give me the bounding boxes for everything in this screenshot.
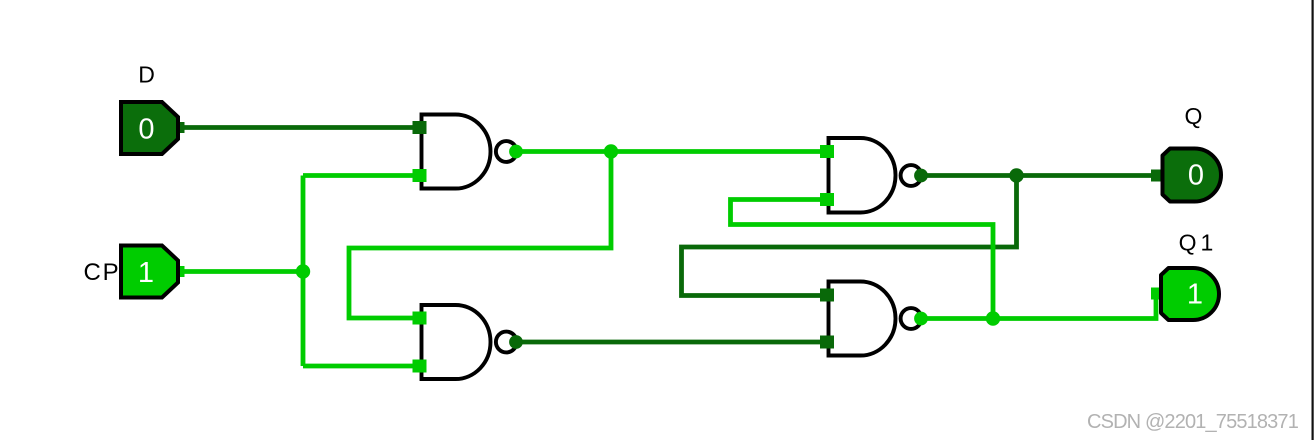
svg-text:CSDN @2201_75518371: CSDN @2201_75518371 (1087, 411, 1299, 433)
svg-text:D: D (138, 62, 155, 88)
svg-text:Q: Q (1185, 103, 1203, 129)
svg-text:Q1: Q1 (1179, 230, 1218, 256)
svg-text:1: 1 (138, 257, 154, 289)
svg-text:CP: CP (84, 259, 121, 286)
svg-text:0: 0 (138, 114, 154, 146)
svg-text:0: 0 (1188, 160, 1204, 192)
svg-text:1: 1 (1187, 279, 1203, 311)
